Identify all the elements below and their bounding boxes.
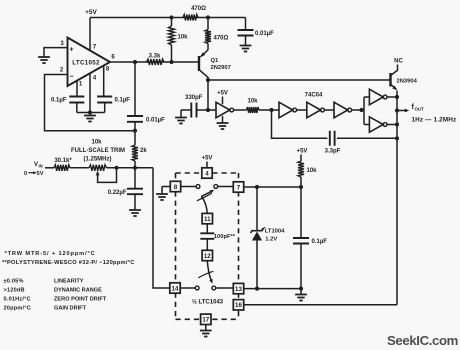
svg-text:7: 7	[237, 184, 241, 191]
svg-text:10k: 10k	[307, 168, 318, 174]
svg-text:1Hz — 1.2MHz: 1Hz — 1.2MHz	[412, 117, 457, 124]
svg-text:2N3904: 2N3904	[397, 79, 418, 85]
svg-text:**POLYSTYRENE-WESCO #32-P/ −12: **POLYSTYRENE-WESCO #32-P/ −120ppm/°C	[2, 260, 135, 266]
svg-text:ZERO POINT DRIFT: ZERO POINT DRIFT	[54, 296, 107, 302]
svg-text:17: 17	[202, 317, 209, 324]
svg-text:DYNAMIC RANGE: DYNAMIC RANGE	[54, 287, 102, 293]
svg-text:½ LTC1043: ½ LTC1043	[192, 299, 224, 306]
svg-text:±0.05%: ±0.05%	[4, 278, 24, 284]
svg-text:3.3pF: 3.3pF	[325, 149, 341, 155]
svg-text:3.3k: 3.3k	[149, 54, 161, 60]
svg-text:0.1µF: 0.1µF	[51, 98, 67, 104]
svg-text:14: 14	[172, 285, 179, 292]
svg-text:IN: IN	[39, 163, 43, 168]
svg-text:20ppm/°C: 20ppm/°C	[4, 305, 31, 311]
svg-text:16: 16	[235, 302, 242, 309]
svg-text:5V: 5V	[37, 171, 44, 177]
svg-text:0.1µF: 0.1µF	[312, 239, 328, 245]
svg-text:LTC1052: LTC1052	[72, 60, 100, 67]
svg-text:470Ω: 470Ω	[214, 36, 229, 42]
svg-text:+5V: +5V	[85, 9, 97, 16]
svg-text:(1.25MHz): (1.25MHz)	[83, 157, 111, 163]
svg-text:Q1: Q1	[211, 58, 220, 64]
svg-text:0.01µF: 0.01µF	[146, 118, 165, 124]
svg-text:>120dB: >120dB	[4, 287, 25, 293]
svg-text:13: 13	[235, 286, 242, 293]
svg-text:2k: 2k	[140, 148, 147, 154]
svg-text:0: 0	[24, 171, 27, 177]
svg-text:30.1k*: 30.1k*	[54, 158, 72, 164]
svg-text:*TRW MTR-5/ + 120ppm/°C: *TRW MTR-5/ + 120ppm/°C	[5, 251, 96, 257]
svg-text:+: +	[69, 46, 73, 53]
svg-text:12: 12	[204, 253, 211, 260]
svg-text:OUT: OUT	[415, 107, 425, 112]
svg-text:0.01µF: 0.01µF	[255, 31, 274, 37]
svg-text:1.2V: 1.2V	[265, 236, 277, 242]
svg-text:NC: NC	[394, 59, 403, 65]
svg-text:11: 11	[204, 216, 211, 223]
svg-text:74C04: 74C04	[305, 93, 323, 99]
svg-text:0.01Hz/°C: 0.01Hz/°C	[4, 296, 31, 302]
svg-text:+5V: +5V	[297, 149, 308, 155]
svg-text:SeekIC.com: SeekIC.com	[387, 333, 458, 348]
svg-text:10k: 10k	[178, 35, 189, 41]
svg-text:GAIN DRIFT: GAIN DRIFT	[54, 305, 87, 311]
svg-text:+5V: +5V	[202, 156, 213, 162]
svg-text:100pF**: 100pF**	[214, 234, 236, 240]
svg-text:8: 8	[174, 184, 178, 191]
svg-text:FULL-SCALE TRIM: FULL-SCALE TRIM	[71, 148, 125, 154]
svg-text:LINEARITY: LINEARITY	[54, 278, 84, 284]
svg-text:10k: 10k	[247, 99, 258, 105]
svg-text:0.1µF: 0.1µF	[115, 98, 131, 104]
svg-text:10k: 10k	[91, 140, 102, 146]
svg-text:0.22µF: 0.22µF	[108, 190, 127, 196]
svg-text:−: −	[69, 73, 73, 80]
svg-text:330pF: 330pF	[185, 95, 203, 101]
svg-text:2N2907: 2N2907	[211, 65, 231, 71]
svg-text:470Ω: 470Ω	[191, 6, 206, 12]
svg-text:+5V: +5V	[217, 91, 228, 97]
svg-text:LT1004: LT1004	[265, 229, 285, 235]
svg-text:4: 4	[205, 170, 209, 177]
